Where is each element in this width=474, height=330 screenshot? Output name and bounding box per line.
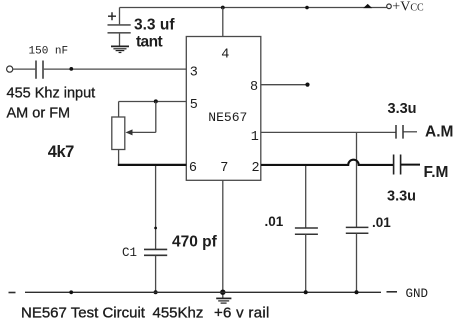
wire: pin 4 to Vcc rail xyxy=(222,8,224,37)
plus sign of capacitor C2 xyxy=(108,12,116,20)
capacitor C1 470 pf xyxy=(144,249,167,255)
dash right of ground rail xyxy=(387,291,398,293)
capacitor C6 .01 right xyxy=(346,227,369,233)
svg-text:1: 1 xyxy=(251,130,259,145)
wire: pin5 wire down to pot top xyxy=(118,102,120,118)
wire: pin 8 stub xyxy=(261,84,306,86)
capacitor C7 .01 left xyxy=(295,228,318,234)
svg-text:NE567: NE567 xyxy=(208,110,247,125)
svg-text:455 Khz input: 455 Khz input xyxy=(7,85,96,101)
wire: pin1 row down to C6 xyxy=(356,132,358,227)
junction dot: ground rail left xyxy=(69,290,73,294)
svg-text:5: 5 xyxy=(190,98,198,113)
svg-text:.01: .01 xyxy=(372,215,391,230)
svg-text:+VCC: +VCC xyxy=(392,0,424,15)
ground symbol (tant cap) xyxy=(111,46,129,52)
svg-text:.01: .01 xyxy=(265,214,284,229)
svg-text:C1: C1 xyxy=(122,246,137,260)
svg-text:+6 v rail: +6 v rail xyxy=(214,305,270,322)
wire: C1 to ground rail xyxy=(155,256,157,293)
junction dot: C6 / ground rail xyxy=(355,290,359,294)
svg-text:4k7: 4k7 xyxy=(48,143,74,161)
junction dot: C1 / ground rail xyxy=(154,290,158,294)
wire: Vcc rail to tant cap xyxy=(119,8,121,26)
svg-text:6: 6 xyxy=(189,161,197,176)
capacitor C3 150 nF xyxy=(36,61,43,79)
potentiometer R1 4k7 body xyxy=(112,117,125,150)
IC U1 NE567 body xyxy=(186,37,260,181)
junction dot: pin 7 / ground rail xyxy=(220,290,225,295)
svg-text:GND: GND xyxy=(406,287,429,301)
svg-text:150 nF: 150 nF xyxy=(29,46,69,58)
svg-text:7: 7 xyxy=(220,161,228,176)
wire: ground rail xyxy=(25,291,381,293)
svg-text:tant: tant xyxy=(136,33,162,50)
terminal: signal input xyxy=(7,66,13,72)
dot: end of pin 8 stub xyxy=(305,83,309,87)
small dot on C1 wire xyxy=(154,227,157,230)
svg-text:NE567 Test Circuit: NE567 Test Circuit xyxy=(21,305,146,322)
svg-text:AM or FM: AM or FM xyxy=(7,106,71,122)
wire: pin6 node down to C1 xyxy=(155,166,157,249)
svg-text:8: 8 xyxy=(250,80,258,95)
terminal: +Vcc xyxy=(387,4,392,9)
svg-text:455Khz: 455Khz xyxy=(153,305,204,322)
svg-text:3.3u: 3.3u xyxy=(387,188,416,204)
wire: +Vcc top rail xyxy=(120,7,387,9)
wire: C3 to pin 3 xyxy=(44,68,187,70)
svg-text:2: 2 xyxy=(252,161,260,176)
svg-text:A.M: A.M xyxy=(425,124,453,141)
wire: tant cap to ground xyxy=(119,34,121,47)
dash left of ground rail xyxy=(9,292,16,294)
junction dot: C7 / ground rail xyxy=(304,290,308,294)
wire: C6 to ground rail xyxy=(356,234,358,293)
wire: pin 6 row (thick) xyxy=(118,164,187,166)
wire: pin 7 down to ground xyxy=(222,180,224,298)
wire: C7 to ground rail xyxy=(305,234,307,292)
svg-text:3: 3 xyxy=(190,66,198,81)
svg-text:F.M: F.M xyxy=(424,164,449,181)
wire: C5 to F.M terminal xyxy=(401,164,420,166)
junction dot: Vcc rail right xyxy=(305,6,309,10)
junction dot: Vcc rail / pin 4 xyxy=(221,6,225,10)
arrow mark on Vcc rail xyxy=(363,4,372,8)
junction dot: input node xyxy=(69,67,73,71)
wire: input terminal to C3 xyxy=(13,68,35,70)
svg-text:3.3 uf: 3.3 uf xyxy=(134,16,175,33)
wiper wire of potentiometer xyxy=(129,102,156,133)
capacitor C4 3.3u (A.M) xyxy=(396,125,403,139)
svg-text:470 pf: 470 pf xyxy=(172,234,218,251)
capacitor C2 3.3uf tant xyxy=(108,25,131,33)
wire: pin 2 row thick with hop xyxy=(261,160,393,165)
wire: pin 1 row xyxy=(261,131,396,133)
wire: C4 to A.M terminal xyxy=(404,131,418,133)
wire: pin2 row down to C7 xyxy=(305,166,307,228)
svg-text:4: 4 xyxy=(221,48,229,63)
ground symbol (pin 7) xyxy=(216,298,231,303)
capacitor C5 3.3u (F.M) xyxy=(394,155,401,175)
svg-text:3.3u: 3.3u xyxy=(388,101,417,117)
junction dot: pin 5 / wiper xyxy=(154,99,158,103)
wiper arrowhead xyxy=(126,129,133,135)
wire: pot bottom to pin 6 wire xyxy=(118,150,120,166)
wire: pin 5 row xyxy=(119,101,187,103)
